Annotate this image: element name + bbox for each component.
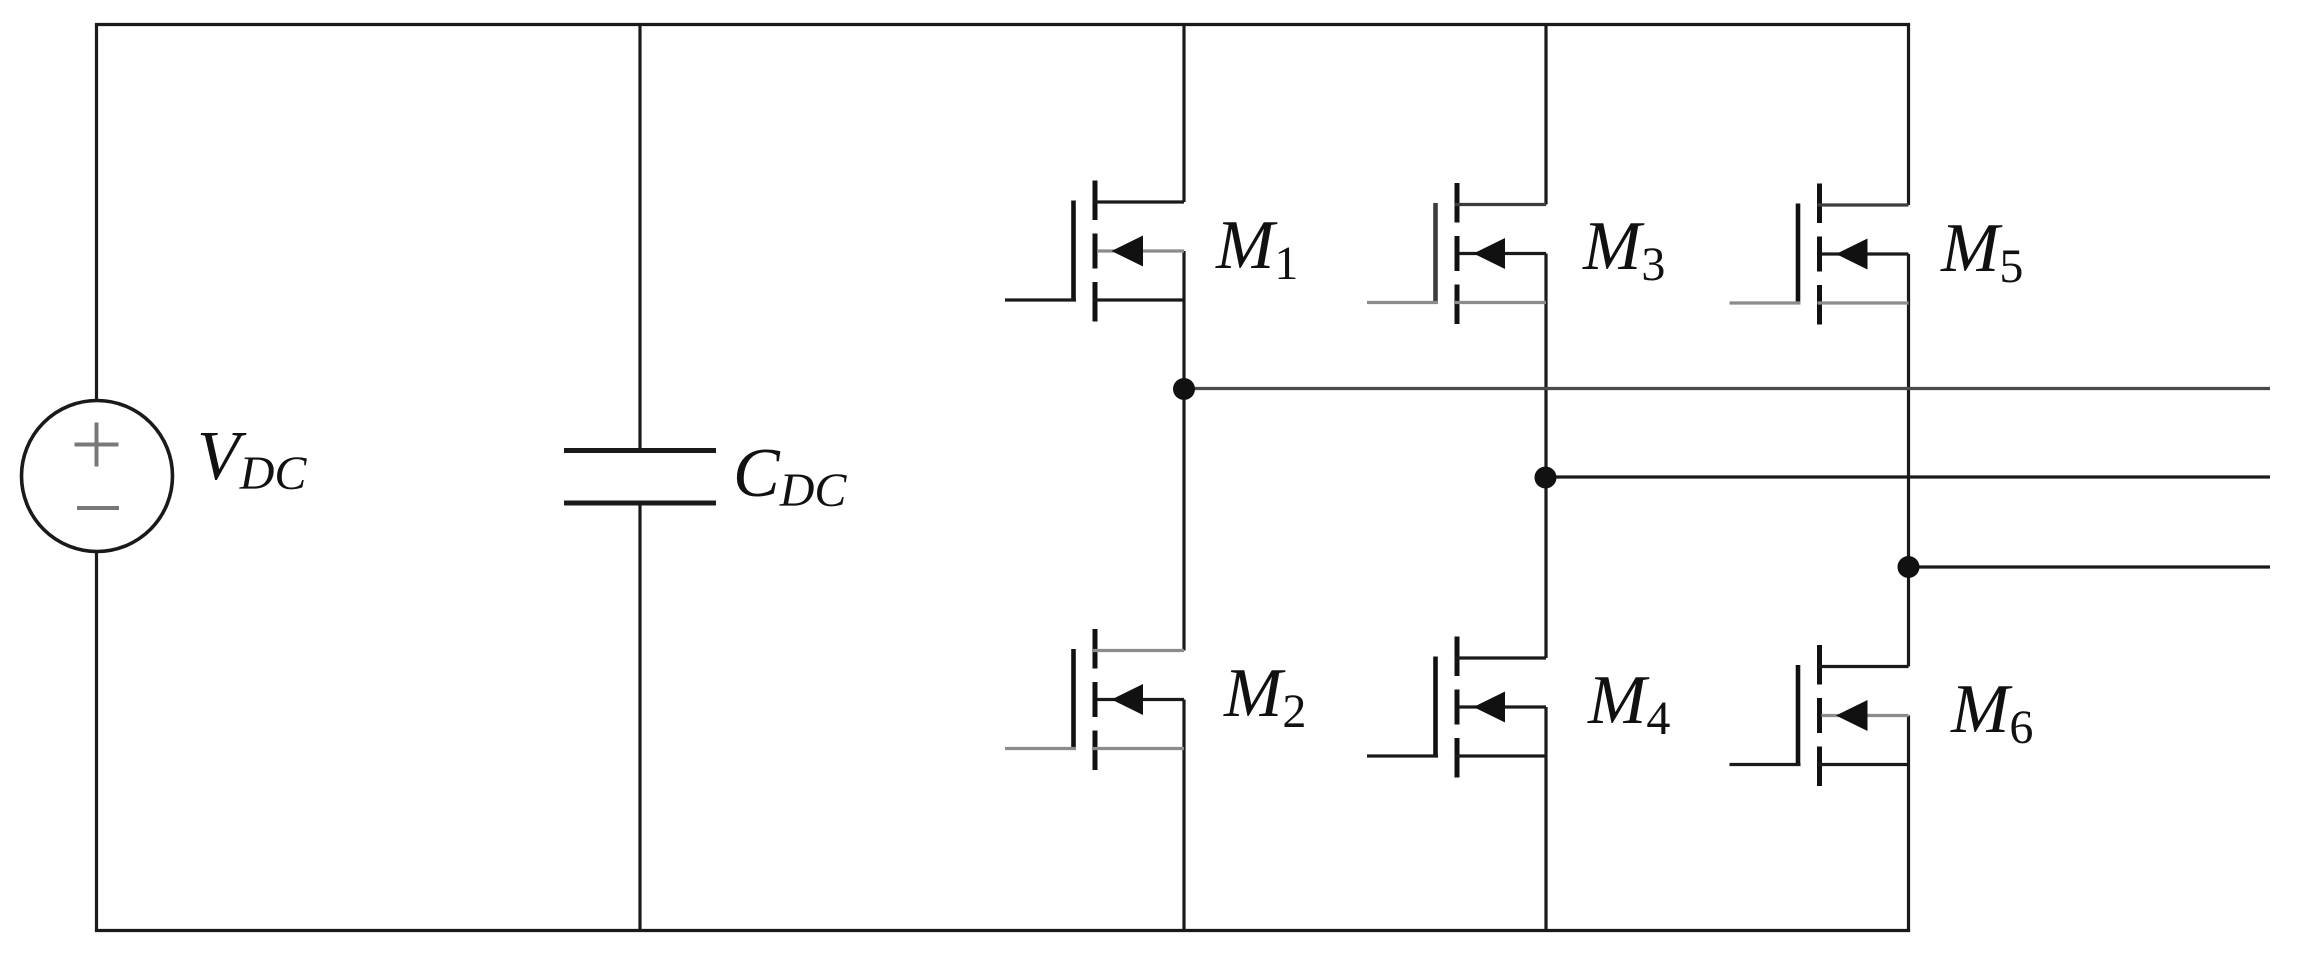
node A junction dot — [1173, 378, 1195, 400]
wire capacitor bottom lead — [638, 503, 641, 931]
transistor M6 — [1730, 645, 1909, 786]
M5 body diode arrow — [1836, 239, 1868, 270]
M5 body connection — [1822, 252, 1909, 255]
wire leg B upper (top rail to M3 drain) — [1544, 25, 1547, 205]
M2 channel top segment — [1093, 629, 1098, 669]
M3 channel bottom segment — [1455, 285, 1460, 325]
transistor M2 — [1005, 629, 1184, 770]
M3 source lead — [1455, 301, 1546, 304]
wire leg C middle (M5 source to M6 drain through node C) — [1907, 254, 1910, 667]
wire left rail lower (source to bottom bus) — [95, 550, 98, 931]
VDC plus sign — [75, 443, 119, 447]
wire leg C lower (M6 source to bottom rail) — [1907, 716, 1910, 931]
M2 source lead — [1093, 747, 1184, 750]
CDC bottom plate — [564, 501, 716, 506]
M2 channel bottom segment — [1093, 731, 1098, 771]
wire left rail upper (source to top bus) — [95, 25, 98, 403]
M4 drain lead — [1455, 656, 1546, 659]
wire top rail (DC+ bus) — [95, 23, 1910, 26]
wire leg C upper (top rail to M5 drain) — [1907, 25, 1910, 206]
wire leg B lower (M4 source to bottom rail) — [1544, 707, 1547, 931]
M4 source lead — [1455, 754, 1546, 757]
M2 channel middle segment — [1093, 682, 1098, 717]
capacitor CDC — [564, 451, 716, 504]
wire leg A middle (M1 source to M2 drain through node A) — [1182, 251, 1185, 651]
M3 body diode arrow — [1474, 238, 1506, 269]
M1 gate wire — [1005, 298, 1076, 301]
voltage source VDC — [22, 401, 173, 552]
M3 gate wire — [1367, 301, 1438, 304]
svg-text:M6: M6 — [1950, 671, 2033, 754]
svg-text:M3: M3 — [1582, 208, 1665, 291]
M6 gate bar — [1796, 665, 1801, 765]
svg-text:M2: M2 — [1223, 655, 1306, 738]
M5 gate wire — [1730, 301, 1801, 304]
M1 body diode arrow — [1112, 236, 1144, 267]
transistor M5 — [1730, 184, 1909, 325]
M5 gate bar — [1796, 204, 1801, 304]
M6 drain lead — [1818, 665, 1909, 668]
M3 body connection — [1459, 252, 1546, 255]
M5 channel middle segment — [1817, 237, 1822, 272]
svg-text:M5: M5 — [1940, 210, 2023, 293]
M4 channel bottom segment — [1455, 738, 1460, 778]
wire leg B middle (M3 source to M4 drain through node B) — [1544, 254, 1547, 659]
M2 body diode arrow — [1112, 684, 1144, 715]
M2 gate bar — [1071, 649, 1076, 749]
M6 channel bottom segment — [1817, 747, 1822, 787]
transistor M3 — [1367, 183, 1546, 324]
M5 channel bottom segment — [1817, 285, 1822, 325]
M1 body connection — [1097, 249, 1184, 252]
M2 gate wire — [1005, 747, 1076, 750]
M1 channel middle segment — [1093, 234, 1098, 269]
M4 channel top segment — [1455, 637, 1460, 677]
transistor M4 — [1367, 637, 1546, 778]
M3 channel middle segment — [1455, 236, 1460, 271]
M6 body connection — [1822, 714, 1909, 717]
CDC top plate — [564, 448, 716, 453]
M1 source lead — [1093, 298, 1184, 301]
M5 source lead — [1818, 301, 1909, 304]
wire leg A upper (top rail to M1 drain) — [1182, 25, 1185, 203]
svg-text:VDC: VDC — [197, 418, 307, 500]
M4 gate wire — [1367, 754, 1438, 757]
wire phase B output — [1546, 475, 2271, 478]
M3 channel top segment — [1455, 183, 1460, 223]
svg-text:CDC: CDC — [733, 435, 847, 517]
M1 gate bar — [1071, 201, 1076, 301]
node B junction dot — [1535, 467, 1557, 489]
M6 channel middle segment — [1817, 698, 1822, 733]
VDC minus sign — [77, 506, 119, 510]
M3 gate bar — [1433, 203, 1438, 303]
wire phase A output — [1184, 387, 2270, 390]
svg-text:M4: M4 — [1587, 662, 1670, 745]
M4 body diode arrow — [1474, 692, 1506, 723]
M3 drain lead — [1455, 203, 1546, 206]
wire leg A lower (M2 source to bottom rail) — [1182, 700, 1185, 931]
M1 channel top segment — [1093, 181, 1098, 221]
wire bottom rail (DC- bus) — [95, 929, 1910, 932]
M5 drain lead — [1818, 203, 1909, 206]
M6 body diode arrow — [1836, 700, 1868, 731]
wire capacitor top lead — [638, 25, 641, 451]
wire phase C output — [1909, 565, 2271, 568]
node C junction dot — [1898, 556, 1920, 578]
M5 channel top segment — [1817, 184, 1822, 224]
M4 channel middle segment — [1455, 690, 1460, 725]
M6 gate wire — [1730, 763, 1801, 766]
M4 body connection — [1459, 705, 1546, 708]
M6 channel top segment — [1817, 645, 1822, 685]
transistor M1 — [1005, 181, 1184, 322]
M4 gate bar — [1433, 657, 1438, 757]
M1 drain lead — [1093, 200, 1184, 203]
M1 channel bottom segment — [1093, 282, 1098, 322]
M2 body connection — [1097, 698, 1184, 701]
M2 drain lead — [1093, 649, 1184, 652]
svg-text:M1: M1 — [1215, 207, 1298, 290]
M6 source lead — [1818, 763, 1909, 766]
